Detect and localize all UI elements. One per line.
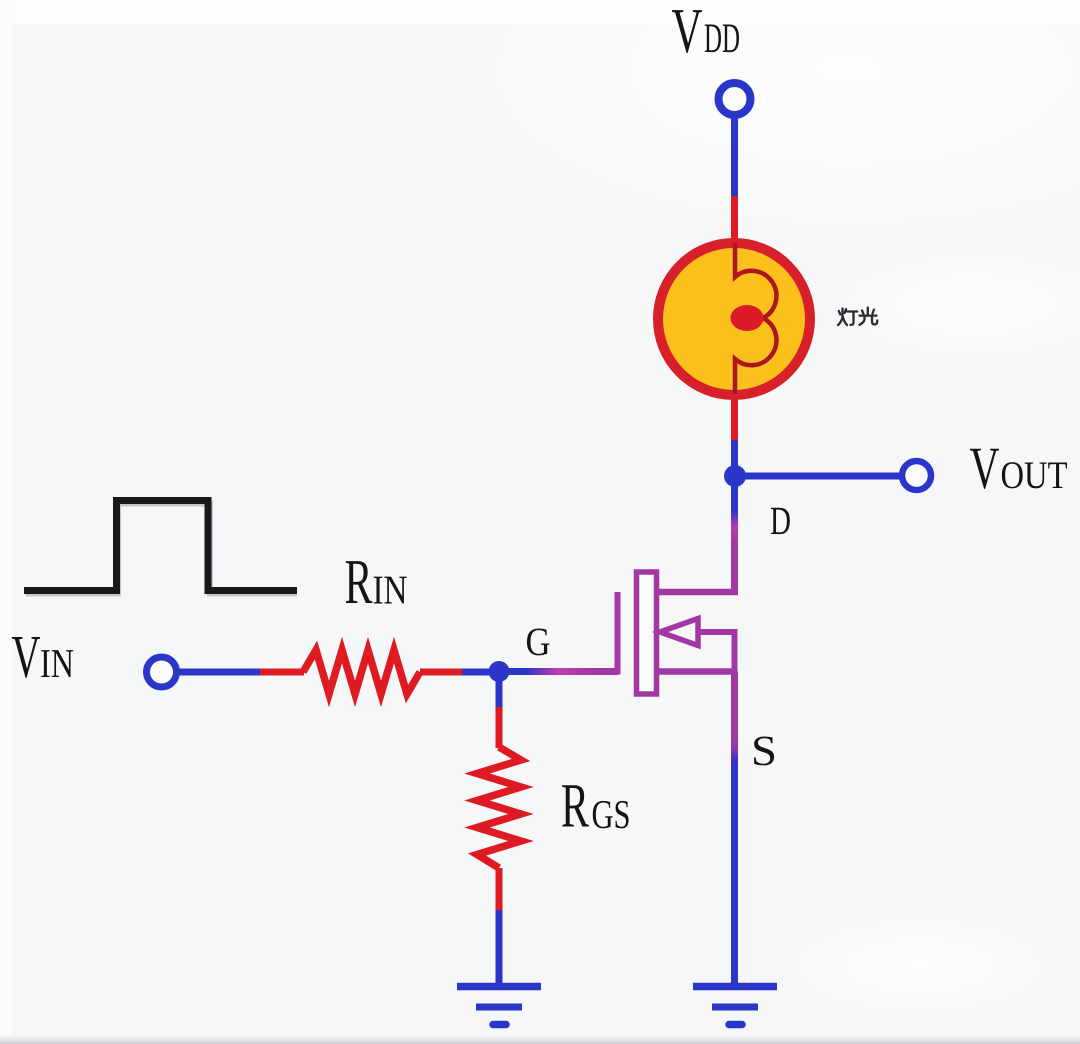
svg-text:R: R (561, 771, 589, 841)
terminal VDD (719, 83, 751, 115)
wire VDD to lamp (blue then red) (731, 115, 738, 245)
svg-text:DD: DD (704, 16, 740, 62)
svg-text:IN: IN (40, 640, 74, 686)
node D junction (724, 465, 746, 487)
svg-text:G: G (526, 619, 551, 664)
terminal VOUT (902, 461, 931, 490)
ground (right, below source) (693, 987, 777, 1025)
label lamp (Chinese: deng guang) (838, 308, 877, 326)
svg-text:R: R (345, 546, 373, 617)
wire RIN to node G (red then blue) (420, 669, 494, 676)
wire source down to ground (purple to blue gradient) (731, 672, 738, 985)
label RGS (561, 771, 631, 841)
transistor Q1: gate bar (615, 592, 621, 675)
lamp L1 filament blob (731, 305, 764, 331)
transistor Q1: source lead (658, 668, 738, 675)
wire VIN terminal to RIN (blue then red) (176, 669, 304, 676)
svg-text:GS: GS (592, 791, 631, 837)
svg-text:IN: IN (373, 567, 408, 613)
svg-text:V: V (672, 0, 703, 66)
svg-text:V: V (970, 435, 1000, 501)
label G (526, 619, 551, 664)
wire node G down to RGS (blue then red) (496, 672, 503, 749)
label VDD (672, 0, 741, 66)
label D (770, 498, 791, 543)
resistor RGS (477, 747, 521, 868)
transistor Q1: drain lead (658, 589, 738, 596)
label S (751, 728, 777, 775)
terminal VIN (147, 657, 177, 687)
label VIN (12, 624, 75, 691)
wire drain up to node D (purple to blue gradient) (731, 476, 738, 592)
svg-text:OUT: OUT (1001, 454, 1068, 497)
wire RGS to ground (red then blue) (496, 868, 503, 984)
wire node G to MOSFET gate (blue to purple gradient) (499, 668, 618, 675)
transistor Q1: substrate arrow (points left) (660, 619, 738, 672)
wire node D to VOUT terminal (735, 473, 902, 480)
lamp L1 body (658, 243, 810, 395)
resistor RIN (303, 650, 420, 694)
label RIN (345, 546, 408, 617)
svg-text:S: S (751, 728, 777, 775)
label VOUT (970, 435, 1068, 501)
lamp L1 filament (735, 243, 776, 394)
transistor Q1: channel body rectangle (637, 572, 657, 694)
svg-text:D: D (770, 498, 791, 543)
node G junction (489, 661, 510, 682)
ground (left, below RGS) (457, 987, 541, 1025)
wire lamp to node D (red then blue) (731, 392, 738, 470)
input pulse waveform (24, 501, 297, 594)
svg-text:V: V (12, 624, 41, 691)
